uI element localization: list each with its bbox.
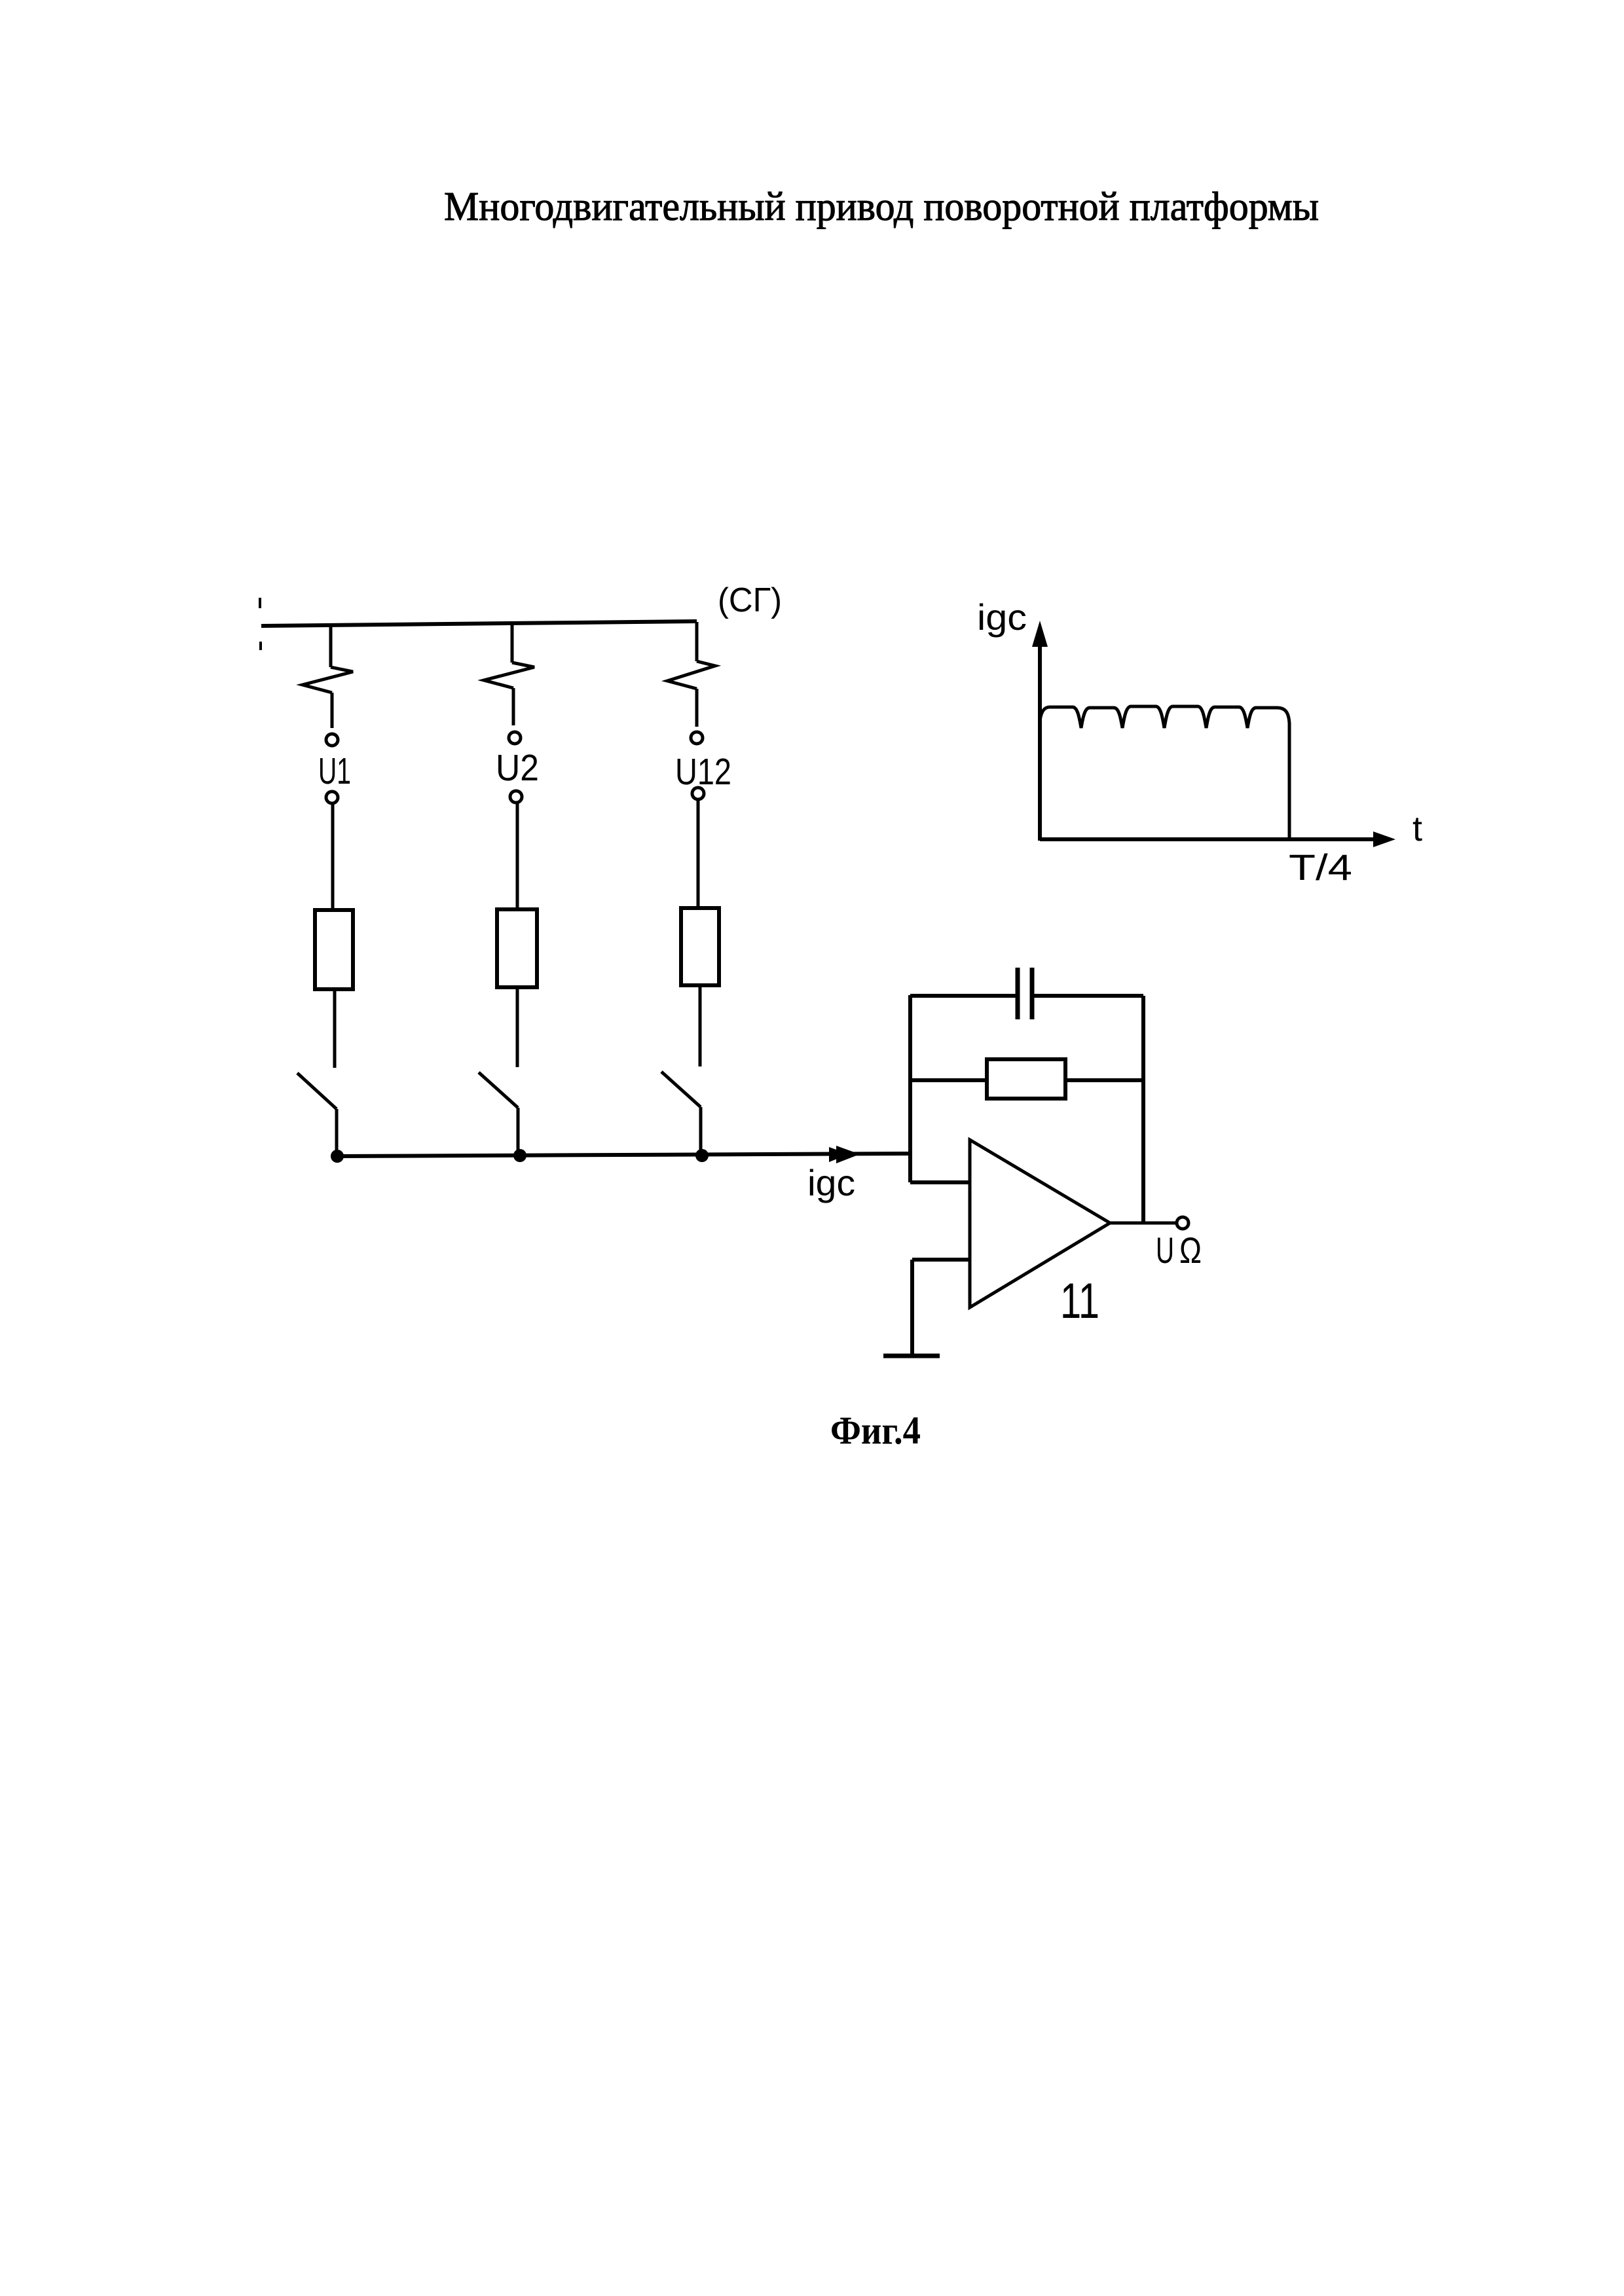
graph x-axis bbox=[1040, 837, 1380, 841]
terminal circle branch 3 lower bbox=[692, 788, 704, 799]
wire: bottom summing bus bbox=[337, 1154, 910, 1156]
graph x-axis arrowhead bbox=[1373, 831, 1395, 847]
op-amp U11 triangle bbox=[970, 1140, 1110, 1307]
svg-text:(СГ): (СГ) bbox=[718, 581, 782, 619]
resistor R1 bbox=[315, 910, 353, 989]
stub mark upper left bbox=[259, 598, 261, 608]
wire feedback top left segment bbox=[910, 994, 1018, 998]
curve igc(t) bbox=[1040, 706, 1289, 839]
wire branch 2 terminal to resistor bbox=[516, 803, 519, 909]
wire branch 1 drop bbox=[329, 624, 333, 667]
wire branch 1 resistor to switch bbox=[333, 989, 337, 1068]
resistor feedback box bbox=[987, 1059, 1065, 1099]
wire ground drop bbox=[910, 1260, 914, 1356]
wire inverting input bbox=[910, 1180, 970, 1184]
terminal circle branch 1 lower bbox=[326, 792, 338, 803]
breaker arrow symbol branch 3 bbox=[667, 661, 715, 689]
svg-text:U: U bbox=[1156, 1230, 1174, 1271]
wire branch 3 terminal to resistor bbox=[697, 799, 700, 908]
svg-text:t: t bbox=[1412, 809, 1422, 848]
capacitor C left plate bbox=[1016, 968, 1020, 1019]
terminal circle branch 1 upper bbox=[326, 734, 338, 746]
switch blade branch 2 bbox=[479, 1072, 518, 1108]
ground bbox=[883, 1354, 940, 1358]
wire branch 3 drop bbox=[695, 622, 699, 661]
wire branch 3 to terminal bbox=[695, 689, 699, 727]
svg-text:Ω: Ω bbox=[1179, 1230, 1202, 1271]
wire feedback top right segment bbox=[1032, 994, 1143, 998]
current direction arrow second head bbox=[829, 1147, 849, 1162]
wire: top supply bus bbox=[261, 621, 697, 626]
wire branch 1 to terminal bbox=[331, 693, 334, 728]
graph y-axis bbox=[1038, 636, 1042, 841]
svg-text:U2: U2 bbox=[496, 747, 539, 789]
junction dot branch 2 bbox=[513, 1149, 526, 1162]
wire branch 2 to terminal bbox=[512, 688, 515, 725]
svg-text:11: 11 bbox=[1060, 1273, 1099, 1329]
wire branch 3 switch to bus bbox=[699, 1107, 703, 1154]
current direction arrow bbox=[836, 1146, 860, 1163]
resistor R3 bbox=[681, 908, 719, 985]
svg-text:Фиг.4: Фиг.4 bbox=[830, 1409, 921, 1452]
wire branch 1 switch to bus bbox=[335, 1109, 339, 1155]
wire resistor row right bbox=[1065, 1078, 1143, 1082]
switch blade branch 3 bbox=[661, 1072, 701, 1107]
svg-text:igc: igc bbox=[977, 596, 1027, 638]
wire branch 3 resistor to switch bbox=[699, 985, 702, 1066]
wire feedback left vertical bbox=[908, 995, 912, 1182]
wire noninverting input bbox=[912, 1258, 970, 1262]
svg-text:igc: igc bbox=[807, 1162, 855, 1203]
wire branch 2 resistor to switch bbox=[516, 987, 519, 1067]
terminal circle branch 2 upper bbox=[509, 732, 521, 744]
breaker arrow symbol branch 2 bbox=[484, 663, 534, 688]
graph y-axis arrowhead bbox=[1032, 621, 1048, 647]
wire feedback right vertical bbox=[1141, 996, 1145, 1223]
wire resistor row left bbox=[910, 1078, 987, 1082]
junction dot branch 1 bbox=[331, 1150, 344, 1163]
svg-text:Многодвигательный привод повор: Многодвигательный привод поворотной плат… bbox=[444, 185, 1319, 229]
wire branch 2 drop bbox=[511, 624, 514, 663]
svg-text:U12: U12 bbox=[675, 751, 731, 793]
svg-text:T/4: T/4 bbox=[1289, 847, 1352, 888]
wire branch 2 switch to bus bbox=[517, 1108, 520, 1154]
wire branch 1 terminal to resistor bbox=[331, 803, 335, 910]
output terminal circle bbox=[1177, 1217, 1189, 1229]
terminal circle branch 3 upper bbox=[691, 732, 703, 744]
resistor R2 bbox=[497, 909, 537, 987]
breaker arrow symbol branch 1 bbox=[303, 667, 353, 693]
svg-text:U1: U1 bbox=[318, 750, 351, 792]
wire output bbox=[1110, 1222, 1177, 1225]
stub mark lower left bbox=[259, 642, 262, 650]
junction dot branch 3 bbox=[695, 1149, 709, 1162]
terminal circle branch 2 lower bbox=[510, 791, 522, 803]
capacitor C right plate bbox=[1030, 968, 1035, 1019]
switch blade branch 1 bbox=[297, 1073, 337, 1109]
